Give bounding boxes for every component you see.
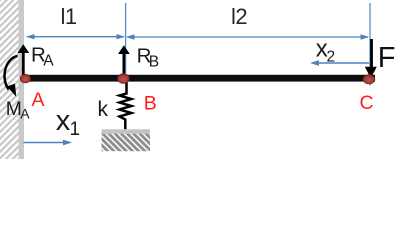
node dot B bbox=[118, 74, 130, 84]
svg-text:A: A bbox=[43, 53, 54, 70]
svg-text:2: 2 bbox=[327, 49, 336, 66]
label R_A bbox=[31, 44, 54, 70]
spring ground hatch bbox=[102, 134, 151, 152]
svg-text:A: A bbox=[20, 106, 30, 122]
reaction arrow R_A bbox=[17, 44, 29, 78]
svg-text:l1: l1 bbox=[61, 4, 77, 29]
svg-text:B: B bbox=[144, 93, 157, 115]
svg-text:A: A bbox=[32, 89, 45, 111]
svg-text:1: 1 bbox=[70, 119, 81, 140]
wall face band bbox=[19, 0, 25, 159]
beam bbox=[24, 75, 375, 82]
label x2 bbox=[316, 36, 335, 66]
svg-text:C: C bbox=[360, 92, 374, 114]
node B extension line bbox=[125, 3, 127, 74]
label R_B bbox=[137, 44, 160, 70]
force arrow F bbox=[365, 39, 377, 78]
spring k bbox=[120, 82, 132, 130]
label M_A bbox=[6, 99, 31, 122]
spring ground bar bbox=[102, 129, 151, 133]
label x1 bbox=[56, 105, 80, 140]
wall hatch bbox=[0, 0, 19, 159]
axis arrow x2 bbox=[310, 60, 369, 66]
svg-text:l2: l2 bbox=[231, 4, 247, 29]
node dot C bbox=[363, 75, 375, 84]
node C extension line bbox=[369, 3, 371, 86]
axis arrow x1 bbox=[24, 140, 73, 146]
node dot A bbox=[20, 74, 30, 83]
svg-text:B: B bbox=[149, 53, 159, 70]
reaction arrow R_B bbox=[118, 45, 130, 78]
dimension l1 line bbox=[26, 34, 125, 39]
svg-text:k: k bbox=[98, 98, 109, 121]
dimension l2 line bbox=[126, 34, 369, 39]
moment arc M_A bbox=[5, 56, 18, 97]
svg-text:F: F bbox=[378, 42, 396, 74]
